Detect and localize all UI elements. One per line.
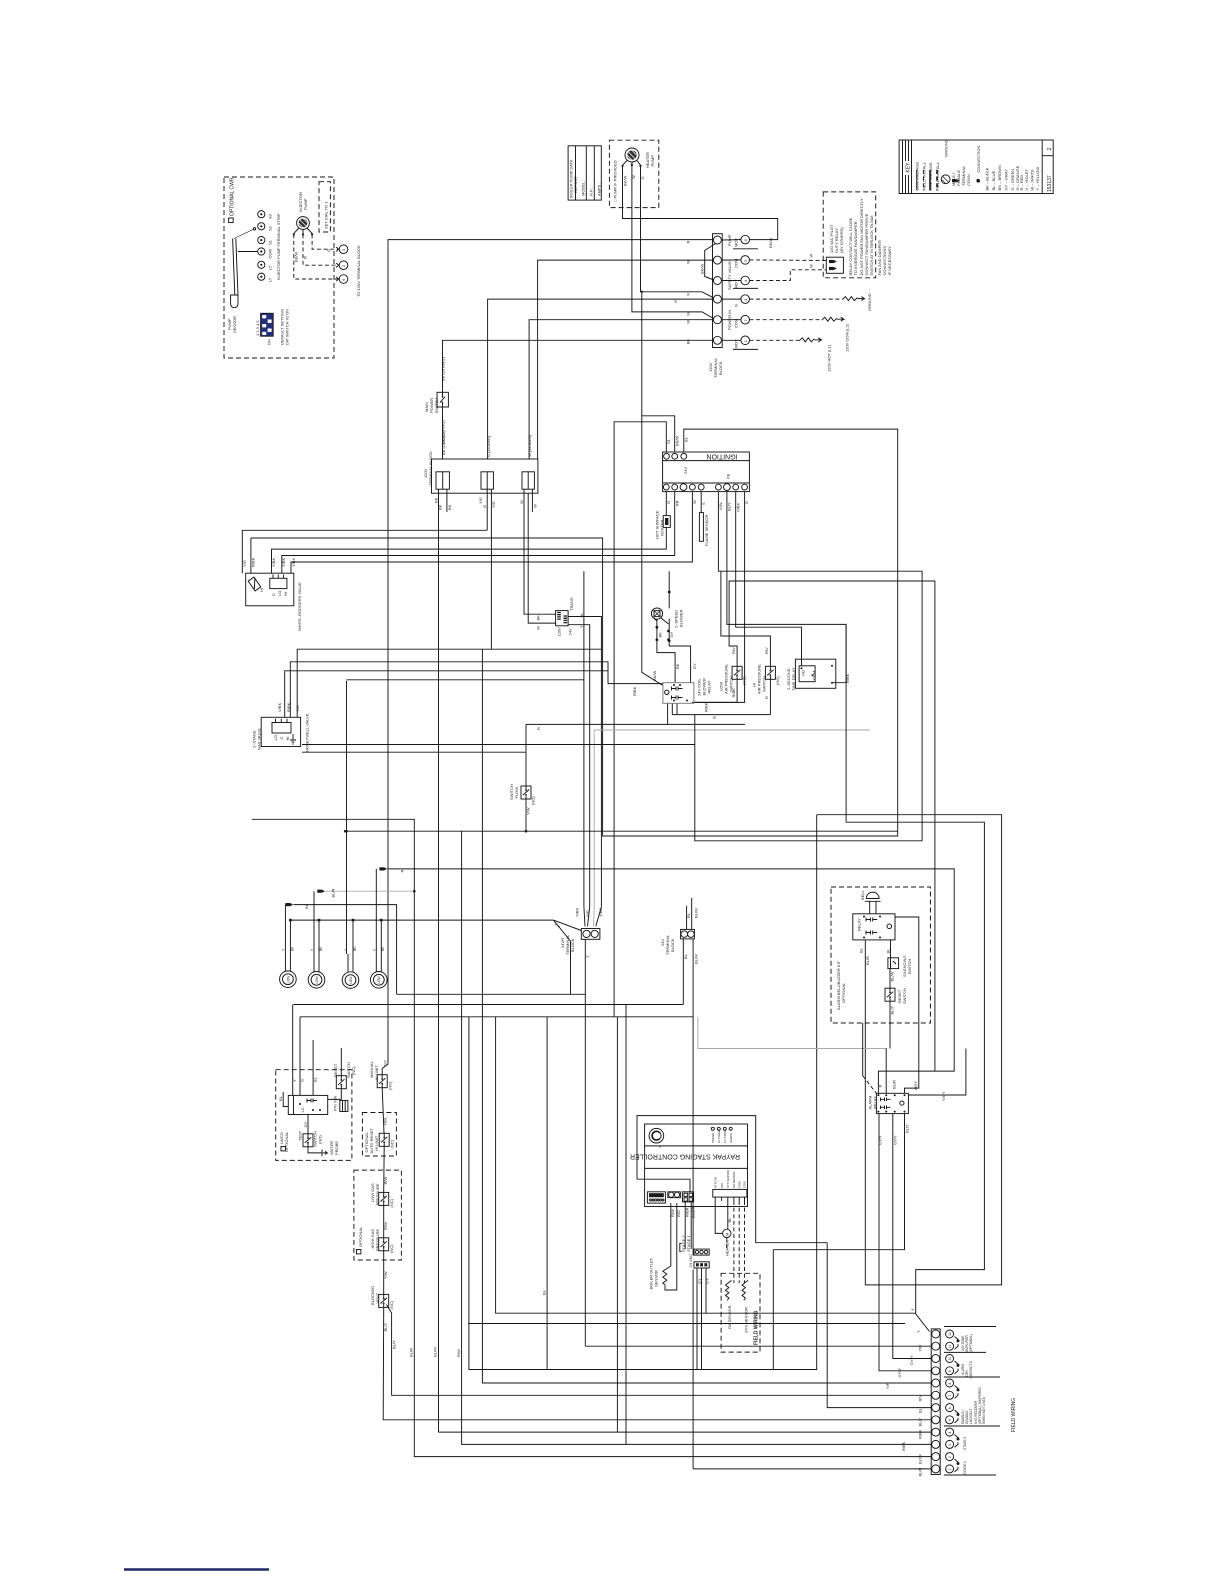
svg-text:CONN: CONN — [966, 174, 971, 186]
LWCO aux connector — [333, 1096, 348, 1112]
svg-text:R: R — [536, 727, 541, 730]
svg-text:HI: HI — [259, 588, 264, 592]
svg-text:Y/R: Y/R — [918, 1345, 923, 1352]
DIP switch default setting — [255, 309, 290, 345]
svg-text:SYS SENSOR: SYS SENSOR — [726, 1170, 730, 1188]
svg-text:SAFETY VALVE: SAFETY VALVE — [727, 261, 732, 290]
injector pump — [293, 192, 314, 235]
svg-text:BK: BK — [675, 663, 680, 669]
low air pressure switch — [718, 647, 746, 698]
svg-text:R/BK: R/BK — [632, 686, 637, 696]
svg-text:BL/R: BL/R — [892, 1080, 897, 1089]
svg-text:C: C — [271, 593, 276, 596]
svg-text:HONEYWELL VALVE: HONEYWELL VALVE — [305, 713, 310, 752]
svg-text:BK: BK — [438, 504, 443, 510]
svg-text:PRESSURE: PRESSURE — [375, 1183, 380, 1205]
t11 feed — [585, 1345, 931, 1347]
120V block lower drops YG group — [478, 489, 496, 649]
svg-text:R/BK: R/BK — [704, 702, 709, 712]
field wiring group brackets and labels — [944, 1327, 1017, 1476]
controller stage terminal block — [682, 1192, 693, 1202]
svg-text:H.P. :: H.P. : — [589, 187, 594, 197]
svg-text:R/BR: R/BR — [685, 1207, 690, 1217]
controller dip switch — [647, 1192, 665, 1203]
svg-text:HI: HI — [283, 592, 288, 596]
svg-text:BL: BL — [727, 1217, 732, 1223]
svg-text:OPTIONAL CWR: OPTIONAL CWR — [230, 177, 236, 216]
controller relay terminals — [668, 1192, 681, 1198]
svg-text:FB: FB — [726, 474, 731, 479]
svg-text:STAGE 1: STAGE 1 — [963, 1461, 967, 1474]
t10 feed — [893, 1114, 931, 1359]
svg-text:Y/G: Y/G — [491, 501, 496, 508]
svg-text:R: R — [878, 1085, 883, 1088]
svg-text:PUMP: PUMP — [303, 198, 308, 210]
main mid horizontal bus — [344, 830, 898, 833]
svg-text:STAGE 1: STAGE 1 — [686, 1235, 691, 1252]
heater pump optional dashed box — [609, 140, 658, 207]
svg-text:BLOCK: BLOCK — [670, 938, 675, 952]
svg-text:BK/W: BK/W — [768, 238, 773, 248]
svg-text:BL: BL — [683, 953, 688, 959]
svg-text:GY/Y: GY/Y — [909, 1355, 914, 1365]
svg-text:(NO): (NO) — [318, 1135, 323, 1144]
h1004 wire — [293, 1004, 683, 1006]
svg-text:LOW: LOW — [286, 976, 290, 983]
alarm reset switch — [885, 988, 907, 1014]
svg-text:BL/Y: BL/Y — [918, 1417, 923, 1426]
controller wire labels — [657, 1145, 696, 1218]
svg-text:GY/Y: GY/Y — [893, 1135, 898, 1145]
svg-text:GY: GY — [669, 631, 674, 637]
relay bottom drops — [668, 703, 677, 724]
controller stage wires — [685, 1202, 706, 1370]
transformer TRANS — [536, 597, 585, 636]
svg-text:Y/BL: Y/BL — [382, 1116, 387, 1125]
svg-text:BL/R: BL/R — [918, 1467, 923, 1476]
t4 feed — [439, 1431, 932, 1433]
svg-text:GY: GY — [705, 1278, 710, 1284]
svg-text:BLOWER: BLOWER — [679, 610, 684, 627]
lamp2 BL/R gray wire — [252, 819, 416, 954]
svg-text:W: W — [533, 504, 538, 508]
svg-text:W: W — [809, 264, 814, 268]
alarm relay (kit output) — [868, 1080, 947, 1145]
boiler outlet sensor — [649, 1257, 671, 1289]
svg-text:W: W — [692, 500, 697, 504]
svg-text:POWER IN: POWER IN — [727, 310, 732, 330]
svg-text:M: M — [725, 1233, 730, 1236]
main power switch — [424, 356, 448, 444]
wire G14 bundle label — [441, 430, 446, 455]
svg-text:(NC): (NC) — [388, 1081, 393, 1090]
svg-text:PROBE: PROBE — [334, 1141, 339, 1155]
svg-text:MOT: MOT — [734, 339, 739, 348]
enclosure loop lower box — [469, 815, 817, 1370]
2-second time delay — [786, 659, 850, 691]
svg-text:W [14 AWG]: W [14 AWG] — [527, 435, 532, 457]
svg-text:SYS SENSOR: SYS SENSOR — [744, 1307, 749, 1333]
svg-text:(BY OTHERS): (BY OTHERS) — [839, 227, 844, 253]
120V HOT lead from terminal 1 — [750, 338, 832, 372]
White-Rodgers valve feed wires — [242, 492, 692, 574]
svg-text:TIME DELAY: TIME DELAY — [791, 667, 796, 691]
svg-text:24 VAC: 24 VAC — [688, 1254, 693, 1268]
svg-text:Y – YELLOW: Y – YELLOW — [1035, 167, 1040, 191]
svg-text:153137: 153137 — [1047, 175, 1053, 192]
relay to low switch bottom bus — [694, 679, 737, 702]
honeywell valve feed wires — [285, 649, 608, 717]
svg-text:(NC): (NC) — [390, 1139, 395, 1148]
svg-text:BL/R: BL/R — [865, 956, 870, 965]
svg-text:10: 10 — [948, 1357, 952, 1361]
controller comb drops — [715, 1201, 744, 1283]
svg-text:W: W — [519, 500, 524, 504]
svg-text:1: 1 — [948, 1468, 952, 1470]
gray aux line — [698, 1017, 887, 1049]
svg-text:IF NECESSARY: IF NECESSARY — [887, 246, 892, 276]
svg-text:(NC): (NC) — [389, 1300, 394, 1309]
svg-text:G: G — [734, 304, 739, 307]
svg-text:8: 8 — [948, 1383, 952, 1385]
svg-text:SWITCH: SWITCH — [907, 959, 912, 975]
svg-text:Y/BK: Y/BK — [281, 558, 286, 567]
svg-text:Y/G: Y/G — [585, 910, 590, 917]
svg-text:W – WHITE: W – WHITE — [1029, 169, 1034, 190]
svg-text:GY: GY — [382, 1060, 387, 1066]
120V COM lead from terminal 2 — [750, 317, 850, 352]
svg-text:IGNITER: IGNITER — [659, 520, 664, 536]
svg-text:POWER: POWER — [711, 1132, 715, 1143]
injector pump dashed leads — [294, 234, 339, 279]
svg-text:4: 4 — [948, 1432, 952, 1434]
svg-text:R: R — [712, 716, 717, 719]
flow switch riser — [525, 724, 528, 832]
svg-text:VENT: VENT — [375, 1292, 380, 1303]
svg-text:STAGE 2: STAGE 2 — [963, 1437, 967, 1450]
LWCO risers — [293, 1005, 342, 1076]
svg-text:RELAY: RELAY — [873, 1096, 878, 1109]
t3 feed — [462, 831, 932, 1444]
svg-text:(NO): (NO) — [742, 676, 747, 685]
svg-text:BK: BK — [447, 504, 452, 510]
alarm relay risers — [773, 1023, 966, 1250]
field wiring terminal strip — [931, 1329, 940, 1475]
svg-text:V/W: V/W — [718, 502, 723, 510]
svg-text:BL: BL — [579, 612, 584, 618]
svg-text:BL/W: BL/W — [433, 1347, 438, 1357]
numbered terminal circles with leads — [722, 234, 758, 349]
svg-text:R/BK: R/BK — [918, 1429, 923, 1439]
svg-text:R: R — [764, 696, 769, 699]
svg-text:LO STAGE: LO STAGE — [723, 1129, 727, 1143]
svg-text:R/W: R/W — [456, 1349, 461, 1357]
white-rodgers valve — [242, 557, 302, 631]
svg-text:OPTIONAL: OPTIONAL — [284, 1131, 289, 1152]
svg-text:TO 120V TERMINAL BLOCK: TO 120V TERMINAL BLOCK — [356, 245, 361, 297]
hi switch bottom drop — [672, 679, 770, 719]
wires-layer placeholder — [242, 165, 1001, 1469]
svg-text:BK – BLACK: BK – BLACK — [985, 167, 990, 190]
svg-text:Y/BK: Y/BK — [598, 908, 603, 917]
ignition BL wire right loop — [251, 429, 898, 836]
field wiring dashed box (sensors) — [721, 1273, 760, 1352]
svg-text:RAYPAK STAGING CONTROLLER: RAYPAK STAGING CONTROLLER — [630, 1153, 740, 1160]
hot surface igniter — [654, 510, 670, 539]
svg-text:Y: Y — [657, 1145, 662, 1148]
controller sensor wires — [665, 1203, 677, 1290]
svg-text:W: W — [536, 626, 541, 630]
svg-text:□ PUMP IF PROVIDED: □ PUMP IF PROVIDED — [613, 160, 618, 202]
svg-text:HI LIMIT: HI LIMIT — [374, 1135, 379, 1151]
svg-text:BK/W: BK/W — [674, 436, 679, 446]
svg-text:BK: BK — [433, 497, 438, 503]
svg-text:BL/Y: BL/Y — [890, 1005, 895, 1014]
LWCO relay module — [278, 1070, 328, 1115]
svg-text:COM: COM — [268, 249, 273, 258]
svg-text:(NC): (NC) — [389, 1244, 394, 1253]
safety chain links — [382, 1088, 931, 1420]
low switch top chain — [729, 581, 935, 1071]
svg-text:W: W — [686, 312, 691, 316]
stage labels + 24VAC connectors — [680, 1235, 710, 1284]
svg-text:LO: LO — [277, 591, 282, 596]
svg-text:GY/Y: GY/Y — [878, 1135, 883, 1145]
24VR terminal block — [553, 908, 603, 958]
svg-text:C: C — [279, 737, 284, 740]
svg-text:LOW: LOW — [315, 976, 319, 983]
svg-text:Y/G: Y/G — [295, 705, 300, 712]
circles 3 2 6 to 120V block — [336, 245, 361, 297]
svg-text:BL: BL — [278, 1095, 283, 1101]
svg-text:5: 5 — [948, 1419, 952, 1421]
svg-text:SET DIAL TO 1: SET DIAL TO 1 — [324, 201, 329, 229]
svg-text:WHEN NOT USED: WHEN NOT USED — [982, 1396, 986, 1424]
svg-text:BL/Y: BL/Y — [383, 1322, 388, 1331]
svg-text:Y/G: Y/G — [478, 497, 483, 504]
ground lead from terminal 3 — [750, 293, 873, 311]
honeywell valve — [252, 702, 310, 752]
heater pump BK/W wire to t6 — [623, 166, 778, 248]
24V coil blower relay — [632, 671, 712, 712]
svg-text:BL/Y: BL/Y — [392, 1340, 397, 1349]
hi switch top chain — [721, 571, 771, 666]
low gas pressure switch — [370, 1177, 394, 1208]
optional CWR dashed enclosure — [224, 177, 334, 358]
svg-text:GY: GY — [697, 1278, 702, 1284]
wire BK to t1 through main switch — [443, 339, 713, 459]
svg-text:R/BK: R/BK — [845, 673, 850, 683]
svg-text:COM: COM — [734, 259, 739, 268]
t9 feed — [879, 1114, 931, 1371]
svg-text:TEST: TEST — [298, 1130, 303, 1141]
svg-text:G: G — [326, 249, 331, 252]
heater pump G wire to t3 — [641, 166, 714, 298]
svg-text:MOT: MOT — [734, 279, 739, 288]
svg-text:LT: LT — [268, 277, 273, 282]
svg-text:GAS VALVE: GAS VALVE — [257, 728, 262, 750]
24VR block entry diagonals — [584, 907, 602, 927]
svg-text:24V: 24V — [720, 1183, 724, 1188]
svg-text:LC: LC — [300, 1107, 305, 1112]
h1016 wire — [300, 1016, 693, 1018]
svg-text:R: R — [686, 241, 691, 244]
svg-text:Y: Y — [579, 625, 584, 628]
svg-text:P/N Y/W: P/N Y/W — [333, 1096, 338, 1111]
t12 Y feed horizontal — [496, 1017, 916, 1313]
svg-text:SWITCH AT INTERLOCK TB-5&6.: SWITCH AT INTERLOCK TB-5&6. — [869, 214, 874, 275]
svg-text:R/G: R/G — [676, 1210, 681, 1217]
alarm kit relay — [853, 914, 895, 940]
svg-text:12: 12 — [948, 1332, 952, 1336]
svg-text:SENSOR: SENSOR — [232, 316, 237, 333]
svg-text:R/V: R/V — [731, 647, 736, 654]
svg-text:Y/BK: Y/BK — [291, 558, 296, 567]
svg-text:RELAY: RELAY — [857, 918, 862, 931]
time delay to right nest — [846, 683, 984, 1332]
svg-text:FLAME SENSOR: FLAME SENSOR — [704, 515, 709, 546]
svg-text:120V HOT (L1): 120V HOT (L1) — [827, 344, 832, 372]
SET DIAL TO 1 box — [319, 182, 330, 232]
svg-text:BLOCK: BLOCK — [570, 938, 575, 952]
svg-text:Y/R: Y/R — [885, 1382, 890, 1389]
svg-text:BK/W: BK/W — [294, 252, 299, 262]
indicator lamps — [280, 920, 388, 988]
flame sensor wire — [700, 492, 702, 513]
120V terminal block (main, top) — [708, 234, 723, 378]
long feeder 744.5 — [302, 745, 695, 753]
svg-text:W: W — [686, 260, 691, 264]
2-speed blower — [651, 608, 696, 669]
svg-text:ON: ON — [267, 339, 272, 345]
svg-text:LINE VOLTAGE: LINE VOLTAGE — [928, 162, 933, 191]
wires terminals 5,4 to pilot relay — [750, 254, 827, 281]
svg-text:Y: Y — [585, 955, 590, 958]
t1 feed — [693, 1468, 931, 1470]
svg-text:BL: BL — [684, 436, 689, 442]
blower left lead — [657, 619, 675, 683]
svg-text:S1: S1 — [268, 239, 273, 245]
svg-text:BL/R: BL/R — [330, 888, 335, 897]
svg-text:BK: BK — [536, 615, 541, 621]
svg-text:R: R — [399, 870, 404, 873]
bottom wire labels — [409, 1347, 461, 1357]
svg-text:G: G — [640, 176, 645, 179]
svg-text:BL: BL — [313, 1076, 318, 1082]
svg-text:(NC): (NC) — [351, 1066, 356, 1075]
svg-text:COM: COM — [737, 1181, 741, 1188]
svg-text:G: G — [482, 505, 487, 508]
t6 feed — [827, 1243, 931, 1408]
svg-text:GY: GY — [692, 663, 697, 669]
injector pump terminal strip — [258, 211, 281, 282]
svg-text:HEATER: HEATER — [725, 1240, 730, 1256]
svg-text:SWITCH: SWITCH — [902, 988, 907, 1004]
svg-text:Y: Y — [916, 1330, 921, 1333]
svg-text:BL/W: BL/W — [890, 971, 895, 981]
svg-text:FIELD WIRING: FIELD WIRING — [754, 1310, 760, 1345]
svg-text:Y: Y — [553, 923, 558, 926]
svg-text:OPTIONAL: OPTIONAL — [841, 982, 846, 1003]
svg-text:HTR ON: HTR ON — [713, 1177, 717, 1188]
transformer secondary BL — [568, 617, 601, 907]
svg-text:(NO): (NO) — [531, 796, 536, 805]
h994 wire — [397, 993, 586, 995]
svg-text:SWITCH: SWITCH — [434, 398, 439, 414]
svg-text:REPORT: REPORT — [573, 176, 578, 193]
svg-text:LOW: LOW — [377, 976, 381, 983]
svg-text:S1: S1 — [666, 438, 671, 444]
svg-text:R/BK: R/BK — [901, 1441, 906, 1451]
svg-text:BL/W: BL/W — [694, 908, 699, 918]
svg-text:TERMINAL BLOCK: TERMINAL BLOCK — [428, 451, 433, 486]
lamp1 BL wire — [285, 905, 396, 995]
svg-text:BK/W: BK/W — [700, 264, 705, 274]
svg-text:GROUND: GROUND — [867, 293, 872, 311]
IGNITION control module — [663, 436, 750, 512]
svg-text:G: G — [686, 293, 691, 296]
aux horizontal 1323 — [468, 1323, 905, 1325]
ignition BKW wire — [641, 291, 675, 686]
hi air pressure switch — [752, 647, 780, 699]
svg-text:O: O — [666, 501, 671, 504]
svg-text:BK (14 AWG): BK (14 AWG) — [441, 356, 446, 381]
svg-text:OA SENSOR: OA SENSOR — [727, 1305, 732, 1329]
svg-text:WHITE–RODGERS VALVE: WHITE–RODGERS VALVE — [297, 582, 302, 631]
wire R from left backbone to 120V block t6 — [382, 240, 712, 1075]
svg-text:(NO): (NO) — [775, 676, 780, 685]
svg-text:CONTACTS: CONTACTS — [969, 1361, 973, 1378]
svg-text:R/V: R/V — [918, 1395, 923, 1402]
pump sensor — [227, 228, 257, 333]
svg-text:PUMP: PUMP — [650, 155, 655, 167]
svg-text:Y/GY: Y/GY — [941, 1091, 946, 1101]
footer line — [124, 1568, 269, 1570]
alarm BLY drop vertical — [772, 1250, 774, 1370]
svg-text:BELL: BELL — [860, 889, 865, 900]
LWCO reset switch — [328, 1062, 356, 1099]
svg-text:BK: BK — [658, 632, 663, 638]
svg-text:FLOW: FLOW — [514, 787, 519, 799]
alarm bell buzzer kit dashed box — [831, 887, 930, 1023]
svg-text:2: 2 — [1047, 148, 1053, 151]
flow switch — [509, 727, 541, 815]
svg-text:BL/R: BL/R — [409, 1348, 414, 1357]
svg-text:GY – GRAY: GY – GRAY — [1004, 169, 1009, 191]
ignition V/BK wire — [736, 492, 802, 666]
svg-text:COM: COM — [812, 671, 817, 680]
svg-text:R/W: R/W — [383, 1177, 388, 1185]
lamp bus — [289, 919, 581, 995]
svg-text:R: R — [303, 256, 308, 259]
svg-text:PUMP: PUMP — [727, 234, 732, 246]
svg-text:W: W — [809, 254, 814, 258]
svg-text:6: 6 — [948, 1407, 952, 1409]
svg-text:11: 11 — [948, 1345, 952, 1349]
blocked vent switch — [370, 1271, 397, 1349]
pilot relay dashed note box — [823, 192, 892, 278]
svg-text:BK/W: BK/W — [652, 671, 657, 681]
alarm bell internal wires — [817, 815, 1002, 1285]
svg-text:9: 9 — [948, 1370, 952, 1372]
ignition BL/Y wire to time delay — [727, 492, 846, 683]
ignition V/W wire upper loop — [695, 492, 922, 841]
svg-text:SENSOR: SENSOR — [654, 1270, 659, 1287]
wire W to t5 — [538, 260, 713, 459]
svg-text:NO: NO — [801, 670, 806, 676]
svg-text:HI LIMIT: HI LIMIT — [374, 1065, 379, 1081]
svg-text:COM: COM — [743, 1181, 747, 1188]
